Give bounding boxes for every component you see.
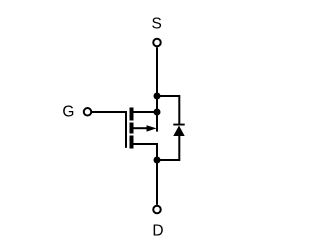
node junction dot (diode top tap) (154, 93, 161, 100)
terminal G (84, 108, 92, 116)
wire S to source node (156, 47, 158, 112)
terminal D (153, 206, 161, 214)
terminal S (153, 39, 161, 47)
wire gate lead (92, 111, 127, 113)
node junction dot (diode bottom tap) (154, 157, 161, 164)
svg-text:S: S (152, 16, 162, 33)
wire diode branch bottom (157, 135, 179, 160)
diode D1 cathode bar (173, 124, 184, 126)
svg-text:G: G (62, 104, 74, 121)
node junction dot (source contact) (154, 109, 161, 116)
wire body link vertical (156, 112, 158, 132)
wire diode branch top (157, 96, 179, 124)
diode D1 (173, 126, 184, 137)
wire body line (134, 127, 149, 129)
wire drain node to D (156, 160, 158, 205)
transistor Q1 body arrow (147, 125, 157, 131)
transistor Q1 gate electrode (125, 111, 127, 148)
wire source contact (134, 111, 158, 113)
transistor Q1 drain contact bar (130, 136, 134, 149)
wire drain contact (134, 144, 158, 160)
transistor Q1 body contact bar (130, 123, 134, 134)
svg-text:D: D (152, 222, 163, 239)
transistor Q1 source contact bar (130, 108, 134, 121)
